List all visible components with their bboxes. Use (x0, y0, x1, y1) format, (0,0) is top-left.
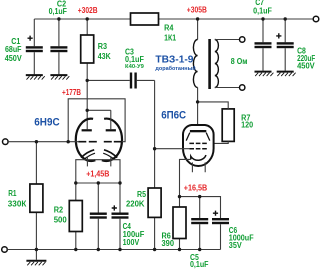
label 6P6S (161, 110, 186, 122)
capacitor C8 (276, 19, 294, 71)
ground (C8) (277, 72, 296, 77)
svg-text:R4: R4 (164, 23, 174, 32)
transformer T1 secondary (215, 40, 240, 88)
ground (C1) (26, 75, 45, 80)
node anode tie (86, 109, 89, 112)
transformer T1 primary (193, 19, 197, 130)
VL2 anode (190, 130, 206, 132)
label R3 (98, 42, 111, 61)
resistor R7 (198, 102, 235, 143)
svg-text:43K: 43K (98, 52, 111, 61)
wire VL1 cathode bus (76, 160, 120, 183)
svg-text:0,1uF: 0,1uF (49, 7, 67, 16)
node C2 top (57, 17, 60, 20)
wire cathode node +16.5V (180, 197, 221, 218)
wire C3 to grid node (154, 80, 156, 148)
capacitor C4 film (90, 183, 107, 250)
node C8 top (284, 17, 287, 20)
node cathode bus mid (97, 181, 100, 184)
VL1 anode right (87, 110, 116, 131)
label R5 (126, 190, 146, 209)
label C7 (253, 0, 272, 15)
svg-text:6П6С: 6П6С (161, 110, 186, 122)
label +16.5V (184, 183, 208, 192)
VL1 cathode right (103, 150, 117, 167)
svg-text:100V: 100V (123, 238, 140, 247)
svg-text:+305В: +305В (187, 5, 207, 14)
label C8 (297, 46, 315, 70)
node bus C4b (118, 248, 121, 251)
wire input to grid (8, 141, 78, 143)
tube VL2 6P6S envelope (183, 125, 214, 166)
node +16.5V C5 (198, 195, 201, 198)
node bus C4a (97, 248, 100, 251)
ground (C7) (255, 72, 274, 77)
wire top rail left segment (34, 18, 130, 20)
ground terminal (2, 247, 8, 253)
svg-text:390: 390 (162, 239, 175, 248)
label R4 (164, 23, 176, 42)
VL2 heater stubs (192, 162, 205, 172)
node bus R1 (35, 248, 38, 251)
speaker terminal top (240, 37, 245, 42)
label 6N9S (34, 117, 59, 129)
VL2 screen grid (189, 142, 206, 144)
label 8 Ohm (231, 57, 248, 66)
node +305V (196, 17, 199, 20)
capacitor C1 (26, 19, 43, 74)
label +1.45V (86, 169, 109, 178)
capacitor C2 (50, 19, 67, 74)
svg-text:120: 120 (241, 121, 253, 130)
label R1 (8, 189, 27, 208)
node cathode bus right (118, 181, 121, 184)
label T1 TVZ-1-9 (155, 55, 196, 72)
svg-text:220K: 220K (126, 200, 145, 209)
node bus R6 (178, 248, 181, 251)
svg-text:ТВЗ-1-9: ТВЗ-1-9 (155, 55, 194, 66)
resistor R1 (30, 142, 43, 250)
node +302V (86, 17, 89, 20)
label R7 (241, 113, 253, 129)
node bus C5 (198, 248, 201, 251)
node bus R2 (74, 248, 77, 251)
resistor R6 (173, 197, 186, 250)
transformer T1 core (208, 39, 211, 89)
VL2 control grid (155, 148, 207, 150)
label R2 (54, 205, 68, 224)
svg-text:+16,5В: +16,5В (184, 183, 208, 192)
node grid tie (67, 140, 70, 143)
label +302V (78, 6, 98, 15)
ground (C2) (50, 75, 69, 80)
wire ground bus (7, 249, 220, 251)
node dots (35, 17, 287, 251)
resistor R2 (69, 183, 82, 250)
label +305V (187, 5, 207, 14)
capacitor C3 (87, 73, 154, 89)
svg-text:+302В: +302В (78, 6, 98, 15)
tube VL1 6N9S envelope (76, 119, 122, 161)
VL1 cathode left (81, 150, 95, 167)
label C1 (5, 37, 23, 63)
VL2 beam plates (186, 133, 210, 141)
svg-text:доработанный: доработанный (155, 65, 196, 72)
VL1 anode left (82, 129, 92, 131)
output terminal B+ (313, 16, 319, 22)
label C6 (229, 226, 254, 250)
svg-text:1К1: 1К1 (164, 34, 176, 43)
svg-text:R1: R1 (8, 189, 17, 198)
label C4 (123, 222, 145, 247)
node R1 input (35, 140, 38, 143)
svg-text:330К: 330К (8, 199, 27, 208)
svg-text:68uF: 68uF (5, 45, 22, 54)
svg-text:450V: 450V (297, 62, 315, 71)
VL1 grid left (78, 141, 97, 143)
svg-text:К40-У9: К40-У9 (125, 64, 144, 70)
label C5 (190, 253, 209, 269)
capacitor C6 (212, 211, 229, 250)
svg-text:35V: 35V (229, 241, 243, 250)
svg-text:R3: R3 (98, 42, 108, 51)
resistor R4 (131, 13, 159, 25)
node VL2 grid (153, 147, 156, 150)
svg-text:R5: R5 (137, 190, 146, 199)
node C3 tap (86, 79, 89, 82)
svg-text:6Н9С: 6Н9С (34, 117, 59, 129)
svg-text:450V: 450V (5, 54, 23, 63)
node C7 top (261, 17, 264, 20)
label R6 (162, 231, 175, 248)
wire top rail right segment (159, 18, 314, 20)
ground (main) (26, 250, 46, 266)
svg-text:+1,45В: +1,45В (86, 169, 109, 178)
svg-text:0,1uF: 0,1uF (125, 55, 144, 64)
resistor R5 (148, 149, 161, 250)
node +16.5V left (178, 195, 181, 198)
svg-text:8 Ом: 8 Ом (231, 57, 248, 66)
VL2 cathode (180, 155, 206, 197)
VL1 grid right (104, 141, 122, 143)
wire grid bracket (68, 99, 125, 142)
capacitor C7 (255, 19, 272, 71)
svg-text:R2: R2 (54, 205, 64, 214)
label C3 (125, 47, 144, 70)
capacitor C4 electrolytic (112, 183, 129, 250)
capacitor C5 (191, 197, 208, 250)
svg-text:0,1uF: 0,1uF (190, 260, 209, 269)
resistor R3 (81, 19, 94, 129)
input terminal (3, 139, 9, 145)
node R7 anode (196, 100, 199, 103)
label C2 (49, 0, 67, 16)
node cathode bus left (74, 181, 77, 184)
speaker terminal bottom (240, 85, 245, 90)
svg-text:500: 500 (54, 216, 68, 225)
svg-text:+177В: +177В (62, 88, 81, 97)
label +177V (62, 88, 81, 97)
node bus R5 (153, 248, 156, 251)
svg-text:0,1uF: 0,1uF (253, 6, 272, 15)
